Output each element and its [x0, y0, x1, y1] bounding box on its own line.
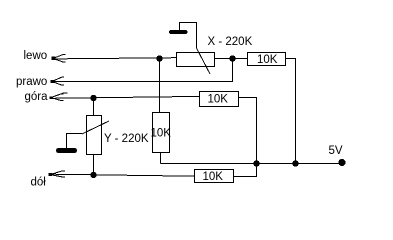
wire lewo — [52, 58, 177, 59]
resistor 10K bottom — [195, 170, 234, 183]
wire dół — [52, 174, 195, 176]
wire 10K middle right down to rail — [239, 98, 257, 164]
connector arrow lewo — [52, 55, 66, 63]
ground bar X — [169, 30, 188, 34]
connector arrow prawo — [51, 77, 65, 85]
node junction Y top — [90, 95, 96, 101]
svg-text:X - 220K: X - 220K — [208, 36, 253, 48]
potentiometer Y - 220K — [82, 116, 109, 155]
node junction right vertical on rail — [292, 160, 298, 166]
svg-text:10K: 10K — [257, 54, 278, 66]
svg-text:10K: 10K — [151, 128, 172, 140]
node junction X right — [229, 55, 235, 61]
ground bar Y — [56, 148, 77, 153]
resistor 10K vertical — [153, 113, 170, 153]
5V rail — [161, 163, 342, 165]
resistor 10K middle — [200, 92, 239, 107]
wire Y pot bottom to dół — [93, 155, 95, 176]
svg-text:Y - 220K: Y - 220K — [104, 133, 149, 145]
svg-text:dół: dół — [31, 177, 47, 189]
svg-text:prawo: prawo — [16, 76, 47, 88]
node junction middle vertical on rail — [253, 160, 259, 166]
svg-text:góra: góra — [25, 91, 49, 103]
wire X left down to vertical 10K — [159, 58, 161, 113]
wire rail down to bottom 10K right — [234, 164, 257, 177]
wire góra to Y pot top — [93, 98, 95, 116]
svg-text:5V: 5V — [329, 145, 343, 157]
connector arrow góra — [50, 93, 68, 101]
wire 10K top right to rail — [286, 59, 296, 164]
node junction X left — [156, 55, 162, 61]
wire vertical 10K bottom to rail — [160, 153, 162, 164]
terminal 5V — [338, 159, 345, 166]
potentiometer X - 220K — [177, 48, 215, 74]
connector arrow dół — [49, 171, 66, 177]
wire prawo — [52, 59, 233, 82]
node junction Y bottom — [90, 172, 96, 178]
svg-text:10K: 10K — [208, 94, 229, 106]
resistor 10K top right — [248, 53, 286, 66]
svg-text:10K: 10K — [203, 171, 224, 183]
wire X wiper to ground — [180, 23, 197, 49]
wire Y wiper to ground — [67, 134, 83, 149]
wire góra — [52, 96, 200, 98]
svg-text:lewo: lewo — [24, 50, 48, 62]
wire X pot right — [215, 58, 248, 60]
